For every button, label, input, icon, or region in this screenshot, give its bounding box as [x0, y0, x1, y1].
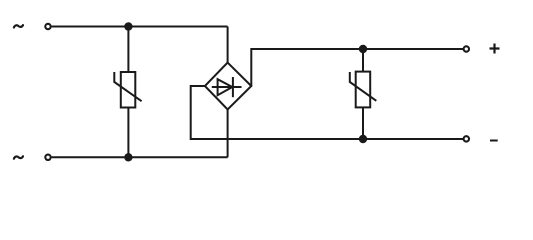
- wire bridge left corner to minus rail: [191, 86, 464, 139]
- terminal DC minus output: [464, 136, 469, 141]
- terminal AC input top-left: [45, 24, 50, 29]
- junction dot plus rail: [359, 45, 367, 53]
- junction dot top AC rail: [124, 22, 132, 30]
- wire RV2 bottom lead: [362, 107, 364, 139]
- varistor RV2: [350, 72, 377, 108]
- wire top AC rail: [52, 26, 228, 28]
- wire AC2 riser to bridge bottom corner: [227, 109, 229, 157]
- wire bottom AC rail: [52, 156, 228, 158]
- junction dot bottom AC rail: [124, 153, 132, 161]
- label minus: [490, 140, 498, 142]
- bridge rectifier U1: [205, 63, 251, 110]
- label ~ (AC) bottom-left: [14, 156, 23, 158]
- label ~ (AC) top-left: [14, 25, 23, 27]
- wire AC1 drop to bridge top corner: [227, 27, 229, 63]
- wire bridge right corner to plus rail: [251, 49, 463, 86]
- wire RV1 bottom lead: [127, 108, 129, 158]
- terminal AC input bottom-left: [45, 155, 50, 160]
- terminal DC plus output: [464, 46, 469, 51]
- varistor RV1: [114, 72, 141, 108]
- label plus: [490, 44, 500, 54]
- wire RV2 top lead: [362, 49, 364, 72]
- junction dot minus rail: [359, 135, 367, 143]
- wire RV1 top lead: [127, 27, 129, 73]
